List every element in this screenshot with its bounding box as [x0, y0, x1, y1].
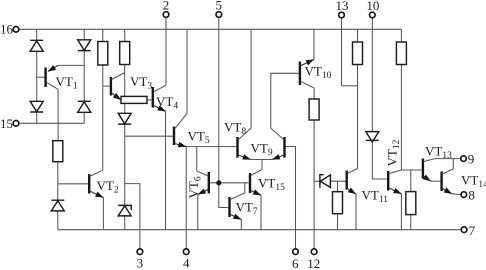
terminal pin 15	[13, 121, 19, 127]
terminal pin 2	[163, 12, 169, 18]
wire branch x=84.2 rail to D2	[83, 29, 85, 40]
wire VT12 collector node to VT13 base	[401, 169, 421, 171]
svg-text:4: 4	[183, 256, 190, 270]
wire rail to VT5 collector	[186, 29, 188, 113]
wire pin15 horizontal	[19, 122, 84, 124]
terminal pin 5	[216, 12, 222, 18]
transistor VT14	[442, 169, 454, 194]
wire D3 to pin15 line	[36, 112, 38, 123]
transistor VT13	[423, 159, 435, 182]
wire VT6 emitter drop	[197, 195, 199, 230]
transistor VT7	[230, 193, 245, 220]
wire branch x=36.7 rail to D1	[36, 29, 38, 40]
terminal pin 3	[137, 249, 143, 255]
svg-text:VT15: VT15	[258, 176, 285, 194]
svg-text:VT9: VT9	[251, 141, 273, 159]
wire VT5 emitter bus to VT8 base	[186, 146, 237, 148]
wire R9 bottom to rail	[410, 215, 412, 230]
wire VT7 emitter drop	[240, 220, 242, 230]
wire node line VT6 base to dot to VT7 collector node to VT15 base	[209, 182, 249, 184]
wire D2 to VT1 emitter node to D4	[83, 51, 85, 102]
wire VT2 base node down to D7	[57, 184, 59, 200]
resistor R5	[309, 99, 319, 120]
transistor VT12	[388, 170, 401, 194]
svg-text:5: 5	[216, 0, 223, 13]
wire VT1 collector vertical to R4	[57, 89, 59, 140]
wire D4 to pin15 line	[83, 112, 85, 123]
svg-text:VT2: VT2	[97, 178, 119, 196]
wire VT11 emitter drop	[355, 194, 357, 230]
wire D8 to VT12 base corner	[372, 140, 387, 179]
svg-text:13: 13	[336, 0, 349, 13]
terminal pin 12	[311, 249, 317, 255]
terminal pin 7	[461, 227, 467, 233]
wire VT14 emitter to pin8	[452, 193, 461, 196]
terminal pin 4	[183, 249, 189, 255]
wire VT15 emitter drop	[260, 195, 262, 229]
wire pin13 vertical	[341, 18, 343, 86]
terminal pin 8	[461, 192, 467, 198]
wire VT5 base	[125, 135, 173, 137]
transistor VT4	[147, 85, 166, 111]
transistor VT5	[174, 114, 187, 147]
wire VT2 base	[58, 183, 88, 185]
svg-text:VT10: VT10	[305, 64, 332, 82]
wire D1 to VT1 base node to D3	[36, 51, 38, 101]
diode VD1 (cathode up)	[30, 40, 43, 51]
svg-text:3: 3	[137, 256, 144, 270]
svg-text:VT12: VT12	[385, 139, 403, 166]
diode VD7 (cathode up)	[51, 200, 64, 211]
diode VD3 (cathode down)	[30, 101, 43, 112]
svg-text:VT7: VT7	[236, 200, 258, 218]
svg-text:8: 8	[468, 188, 475, 203]
svg-text:7: 7	[469, 223, 476, 238]
svg-text:15: 15	[0, 116, 13, 131]
wire R2 bottom to VT3 collector node to D5	[124, 65, 126, 114]
wire pin10 vertical to D8	[371, 18, 373, 132]
wire pin5 vertical to junction dot	[218, 17, 220, 183]
wire R5 bottom through zener node and rail to pin12	[313, 120, 315, 249]
wire R6 bottom to VT11 collector	[357, 65, 359, 169]
resistor R7	[396, 42, 406, 65]
svg-text:VT4: VT4	[156, 94, 178, 112]
wire VT7 collector riser	[244, 183, 246, 193]
terminal pin 16	[13, 27, 19, 33]
wire D5 to VT5 base node to pin3 node to zener D6	[124, 124, 126, 205]
wire pin4 vertical	[185, 147, 187, 249]
diode VD4 (cathode up)	[78, 101, 91, 112]
svg-text:VT13: VT13	[425, 144, 452, 162]
svg-text:16: 16	[0, 22, 14, 37]
resistor R1	[98, 42, 108, 66]
wire D7 to bottom rail corner	[57, 211, 59, 230]
wire R6 top stub	[357, 29, 359, 42]
wire VT3 base	[103, 85, 110, 87]
wire bottom rail (ground bus)	[58, 229, 462, 231]
wire R8 bottom to rail	[337, 214, 339, 230]
wire R1 bottom through VT3 base node down to VT2 collector	[102, 65, 104, 170]
svg-text:VT14: VT14	[461, 173, 486, 191]
wire D6 to bottom rail	[124, 216, 126, 230]
transistor VT6 (sideways)	[197, 171, 209, 195]
transistor VT11	[347, 169, 358, 195]
svg-text:2: 2	[163, 0, 170, 13]
wire VT14 collector riser	[452, 159, 454, 169]
transistor VT8	[238, 128, 252, 159]
terminal pin 13	[339, 12, 345, 18]
wire rail corner to R7	[400, 29, 402, 42]
wire R9 stub down	[410, 170, 412, 192]
terminal pin 10	[370, 12, 376, 18]
transistor VT1 (pnp)	[46, 65, 59, 89]
resistor R8	[333, 192, 343, 214]
terminal pin 9	[461, 156, 467, 162]
transistor VT15	[250, 170, 262, 196]
svg-text:VT3: VT3	[130, 74, 152, 92]
zener VD6 (cathode up, hooked bar)	[118, 205, 131, 216]
svg-text:VT5: VT5	[188, 129, 210, 147]
transistor VT2	[89, 170, 103, 197]
wire VT6 collector drop from bus	[196, 147, 198, 171]
transistor VT3	[111, 73, 125, 100]
transistor VT9 (mirrored)	[271, 128, 285, 159]
wire pin2 vertical to VT4 collector	[165, 17, 167, 85]
wire R1 top stub	[102, 29, 104, 41]
wire VT13 collector to pin9	[435, 158, 460, 160]
resistor R3 (horizontal)	[121, 96, 147, 103]
svg-text:VT11: VT11	[362, 188, 389, 206]
wire VT9 base to pin6	[285, 147, 296, 249]
wire VT1 base	[37, 76, 45, 78]
wire VT1 emitter horizontal	[58, 64, 84, 66]
resistor R9	[406, 192, 416, 215]
wire VT4 emitter drop	[165, 111, 167, 229]
transistor VT10 (emitter up)	[300, 60, 314, 89]
wire zener D9 anode to R8 node to VT11 base	[314, 180, 345, 182]
svg-text:VT6: VT6	[186, 176, 204, 198]
wire R2 top stub	[124, 29, 126, 41]
diode VD5 (cathode down)	[118, 113, 131, 124]
resistor R4	[53, 141, 63, 162]
terminal pin 6	[293, 249, 299, 255]
diode VD2 (cathode down)	[78, 40, 91, 51]
wire VT12 emitter drop	[400, 194, 402, 230]
wire VT10 emitter riser to rail	[313, 29, 315, 59]
wire dot to VT7 base	[219, 183, 229, 208]
wire top rail	[19, 28, 402, 30]
wire common emitter to VT15 collector	[261, 160, 263, 170]
resistor R6	[353, 42, 363, 65]
wire VT10 collector to R5	[313, 88, 315, 99]
svg-text:12: 12	[307, 256, 320, 270]
svg-text:VT8: VT8	[224, 120, 246, 138]
wire pin13 to R6 line	[342, 85, 358, 87]
wire R4 bottom to VT2 base node	[57, 162, 59, 184]
wire VT8 collector riser to rail	[250, 29, 252, 128]
wire VT2 emitter drop	[102, 198, 104, 230]
wire VT9 collector riser to VT10 base	[271, 73, 299, 128]
svg-text:10: 10	[366, 0, 379, 13]
svg-text:VT1: VT1	[56, 74, 78, 92]
wire R7 bottom to VT12 collector node	[400, 65, 402, 171]
wire R8 stub down	[337, 181, 339, 192]
wire diff pair common emitter	[251, 159, 272, 161]
resistor R2	[120, 42, 130, 65]
wire pin3 branch	[125, 184, 140, 249]
wire VT13 emitter to VT14 base	[431, 180, 441, 182]
diode VD8 (cathode down)	[366, 132, 379, 142]
svg-text:6: 6	[292, 256, 299, 270]
junction dot node A	[216, 180, 221, 185]
zener VD9 (cathode left, hooked bar)	[320, 175, 331, 188]
svg-text:9: 9	[468, 152, 475, 167]
